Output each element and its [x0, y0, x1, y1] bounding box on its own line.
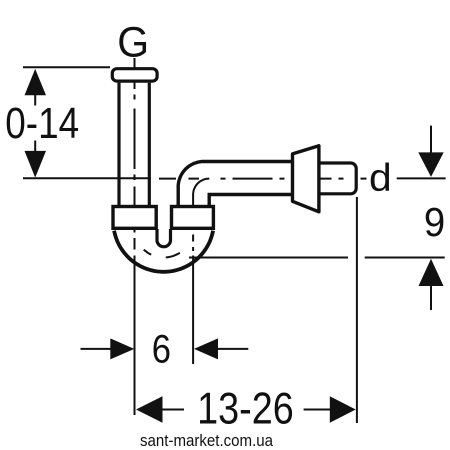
svg-text:9: 9	[424, 200, 445, 245]
dim 9 upper line	[397, 177, 446, 179]
dim label 9	[424, 200, 445, 245]
right slip nut	[172, 207, 214, 229]
riser pipe left wall	[117, 83, 120, 207]
dim label 0-14	[5, 98, 79, 148]
dim label 13-26	[197, 384, 294, 433]
dim 9 up arrow	[419, 259, 444, 310]
dim 0-14 bottom extension line	[23, 177, 151, 179]
U-bend inner wall	[157, 229, 171, 247]
label G	[117, 18, 149, 66]
centerline horizontal dashes before bend	[159, 178, 199, 180]
extension line from pipe end down	[356, 197, 358, 423]
centerline stub after pipe end	[361, 178, 367, 180]
dim 0-14 top extension line	[23, 66, 110, 68]
flange at top of riser	[112, 69, 157, 81]
dim 9 lower line left segment	[189, 257, 348, 259]
svg-text:sant-market.com.ua: sant-market.com.ua	[140, 431, 273, 450]
U-bend outer wall	[114, 231, 213, 272]
dim 13-26 left arrow	[136, 396, 184, 422]
dim 0-14 up arrow	[25, 69, 47, 106]
centerline U-bend arc (dash-dot)	[135, 228, 194, 257]
dim 13-26 right arrow	[304, 396, 356, 422]
centerline outlet leg vertical (dash-dot)	[192, 200, 194, 251]
cone rosette	[293, 146, 319, 212]
svg-text:13-26: 13-26	[197, 384, 294, 433]
centerline riser (vertical dash-dot)	[134, 58, 136, 250]
riser pipe right wall	[148, 83, 151, 207]
elbow outer wall and outlet top edge	[178, 162, 292, 206]
dim 9 down arrow	[418, 126, 443, 177]
dim 6 right arrow	[194, 338, 248, 359]
dim 6 left arrow	[81, 338, 135, 359]
left slip nut	[113, 207, 156, 229]
centerline horizontal outlet (dash-dot)	[221, 178, 345, 180]
dim label d	[369, 157, 392, 200]
svg-text:d: d	[369, 157, 392, 200]
centerline outlet leg bend (solid arc)	[193, 179, 209, 200]
outlet spigot with rounded end cap	[319, 163, 356, 194]
svg-text:0-14: 0-14	[5, 98, 79, 148]
dim 0-14 down arrow	[25, 141, 47, 178]
svg-text:G: G	[117, 18, 149, 66]
dim 9 lower line right segment	[365, 257, 445, 259]
dim label 6	[152, 326, 171, 371]
extension line riser centerline down	[134, 256, 136, 416]
elbow step and outlet bottom edge	[209, 195, 292, 206]
extension line leg centerline down	[192, 256, 194, 365]
watermark	[140, 431, 273, 450]
svg-text:6: 6	[152, 326, 171, 371]
